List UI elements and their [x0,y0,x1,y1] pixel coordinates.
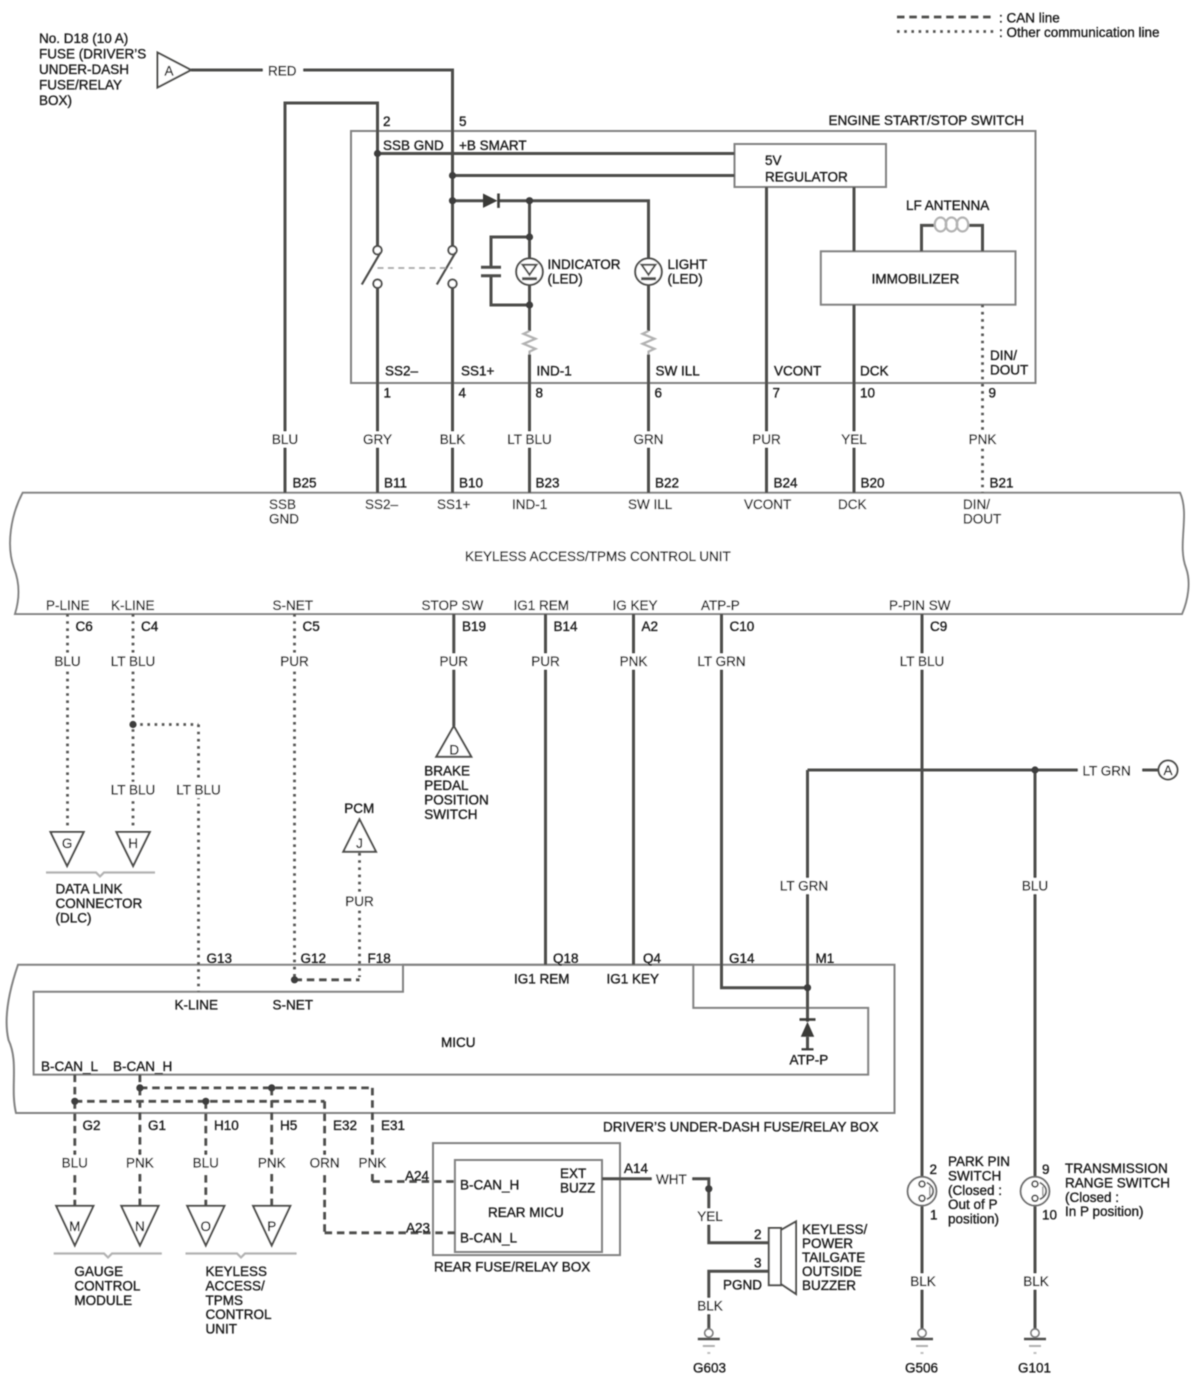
svg-text:LT BLU: LT BLU [507,432,552,447]
svg-text:G1: G1 [148,1118,166,1133]
svg-text:LT BLU: LT BLU [111,783,156,798]
svg-text:10: 10 [860,386,875,401]
svg-text:MODULE: MODULE [74,1293,132,1308]
svg-text:5V: 5V [765,153,782,168]
svg-text:K-LINE: K-LINE [111,598,155,613]
svg-text:(LED): (LED) [668,272,703,287]
svg-text:KEYLESS ACCESS/TPMS CONTROL UN: KEYLESS ACCESS/TPMS CONTROL UNIT [465,549,731,564]
svg-text:S-NET: S-NET [273,998,314,1013]
svg-text:Out of P: Out of P [948,1197,998,1212]
svg-text:Q18: Q18 [553,951,579,966]
svg-text:6: 6 [655,386,663,401]
svg-text:VCONT: VCONT [744,497,791,512]
svg-text:BLU: BLU [62,1156,88,1171]
svg-text:REGULATOR: REGULATOR [765,170,848,185]
svg-text:(DLC): (DLC) [56,911,92,926]
svg-text:SSB: SSB [269,497,296,512]
svg-text:IG1 REM: IG1 REM [514,598,570,613]
svg-text:A: A [164,64,173,79]
svg-text:GND: GND [269,512,299,527]
svg-text:LT BLU: LT BLU [111,654,156,669]
svg-text:LT GRN: LT GRN [1083,764,1131,779]
svg-text:BLU: BLU [193,1156,219,1171]
svg-text:SW ILL: SW ILL [628,497,673,512]
svg-text:C4: C4 [141,619,159,634]
svg-text:PEDAL: PEDAL [424,778,469,793]
svg-text:PCM: PCM [344,801,374,816]
svg-text:BUZZ: BUZZ [560,1181,595,1196]
svg-text:+B SMART: +B SMART [459,138,527,153]
svg-text:H: H [128,836,138,851]
svg-text:SS1+: SS1+ [461,364,495,379]
svg-text:SWITCH: SWITCH [424,807,477,822]
svg-text:8: 8 [536,386,544,401]
svg-text:O: O [201,1219,212,1234]
svg-text:7: 7 [773,386,781,401]
svg-text:B11: B11 [384,476,407,491]
svg-text:(Closed :: (Closed : [1065,1190,1119,1205]
svg-text:PNK: PNK [126,1156,154,1171]
svg-text:S-NET: S-NET [273,598,314,613]
svg-text:P-LINE: P-LINE [46,598,90,613]
svg-text:PUR: PUR [531,654,560,669]
svg-text:IG1 KEY: IG1 KEY [607,972,660,987]
svg-text:REAR FUSE/RELAY BOX: REAR FUSE/RELAY BOX [434,1260,590,1275]
svg-text:TPMS: TPMS [206,1293,244,1308]
svg-text:STOP SW: STOP SW [422,598,484,613]
svg-text:(Closed :: (Closed : [948,1183,1002,1198]
svg-text:POWER: POWER [802,1236,853,1251]
svg-text:PNK: PNK [359,1156,387,1171]
svg-text:IG1 REM: IG1 REM [514,972,570,987]
svg-text:REAR MICU: REAR MICU [488,1205,564,1220]
svg-text:B25: B25 [293,476,317,491]
svg-text:C5: C5 [303,619,320,634]
svg-text:PUR: PUR [752,432,781,447]
svg-text:E31: E31 [381,1118,405,1133]
svg-text:SSB GND: SSB GND [383,138,444,153]
svg-text:C6: C6 [76,619,93,634]
svg-text:BLK: BLK [697,1299,723,1314]
svg-text:G14: G14 [729,951,755,966]
svg-text:CONTROL: CONTROL [206,1307,272,1322]
svg-text:BRAKE: BRAKE [424,764,470,779]
svg-text:No. D18 (10 A): No. D18 (10 A) [39,31,128,46]
svg-text:9: 9 [989,386,997,401]
svg-text:G101: G101 [1018,1361,1051,1376]
svg-text:In P position): In P position) [1065,1204,1144,1219]
svg-text:SS2–: SS2– [365,497,399,512]
svg-text:B-CAN_L: B-CAN_L [460,1231,518,1246]
svg-text:G12: G12 [301,951,327,966]
svg-text:2: 2 [383,114,391,129]
svg-text:LT BLU: LT BLU [176,783,221,798]
svg-text:J: J [356,836,363,851]
svg-text:DIN/: DIN/ [990,348,1017,363]
svg-text:GRN: GRN [634,432,664,447]
svg-text:TAILGATE: TAILGATE [802,1250,865,1265]
svg-text:CONTROL: CONTROL [74,1278,140,1293]
svg-text:MICU: MICU [441,1035,476,1050]
svg-text:N: N [135,1219,145,1234]
svg-text:IMMOBILIZER: IMMOBILIZER [872,272,960,287]
svg-text:PNK: PNK [620,654,648,669]
svg-text:GAUGE: GAUGE [74,1264,123,1279]
svg-text:B14: B14 [554,619,579,634]
svg-text:10: 10 [1042,1208,1057,1223]
svg-text:DRIVER’S UNDER-DASH FUSE/RELAY: DRIVER’S UNDER-DASH FUSE/RELAY BOX [603,1120,879,1135]
svg-text:3: 3 [754,1256,762,1271]
svg-text:LT GRN: LT GRN [697,654,745,669]
svg-text:K-LINE: K-LINE [175,998,219,1013]
svg-text:KEYLESS: KEYLESS [206,1264,268,1279]
svg-text:position): position) [948,1212,999,1227]
svg-text:POSITION: POSITION [424,793,489,808]
svg-text:A24: A24 [405,1169,430,1184]
svg-text:BLK: BLK [1023,1274,1049,1289]
svg-text:B23: B23 [536,476,560,491]
svg-text:B24: B24 [774,476,799,491]
svg-text:PGND: PGND [723,1278,762,1293]
svg-text:1: 1 [384,386,392,401]
svg-text:C10: C10 [730,619,755,634]
svg-text:SS2–: SS2– [385,364,419,379]
svg-text:P: P [267,1219,276,1234]
svg-text:RANGE SWITCH: RANGE SWITCH [1065,1175,1170,1190]
svg-text:2: 2 [930,1162,938,1177]
svg-text:DOUT: DOUT [990,363,1028,378]
svg-text:E32: E32 [333,1118,357,1133]
svg-text:BLU: BLU [1022,879,1048,894]
svg-text:BLK: BLK [440,432,466,447]
svg-text:PUR: PUR [440,654,469,669]
svg-text:IG KEY: IG KEY [613,598,658,613]
svg-text:9: 9 [1042,1162,1050,1177]
svg-text:VCONT: VCONT [774,364,821,379]
svg-text:UNDER-DASH: UNDER-DASH [39,62,129,77]
svg-text:M: M [69,1219,80,1234]
svg-text:CONNECTOR: CONNECTOR [56,896,143,911]
svg-text:INDICATOR: INDICATOR [548,257,621,272]
svg-text:DATA LINK: DATA LINK [56,882,123,897]
svg-text:YEL: YEL [697,1209,723,1224]
svg-text:4: 4 [459,386,467,401]
svg-text:G603: G603 [693,1361,726,1376]
svg-text:P-PIN SW: P-PIN SW [889,598,951,613]
svg-text:G: G [62,836,73,851]
svg-text:1: 1 [930,1208,938,1223]
svg-text:PUR: PUR [280,654,309,669]
svg-text:B10: B10 [459,476,483,491]
svg-text:BLK: BLK [910,1274,936,1289]
svg-text:B-CAN_H: B-CAN_H [113,1059,172,1074]
svg-text:OUTSIDE: OUTSIDE [802,1264,862,1279]
svg-text:B20: B20 [861,476,885,491]
svg-text:LT GRN: LT GRN [780,879,828,894]
svg-text:B22: B22 [655,476,679,491]
svg-text:A2: A2 [642,619,659,634]
svg-text:A: A [1163,763,1172,778]
svg-text:IND-1: IND-1 [537,364,572,379]
svg-text:LIGHT: LIGHT [668,257,708,272]
svg-text:DCK: DCK [860,364,889,379]
svg-text:YEL: YEL [841,432,867,447]
svg-text:Q4: Q4 [643,951,662,966]
svg-text:2: 2 [754,1227,762,1242]
svg-text:FUSE (DRIVER’S: FUSE (DRIVER’S [39,47,146,62]
svg-text:(LED): (LED) [548,272,583,287]
svg-text:DCK: DCK [838,497,867,512]
svg-text:D: D [449,743,459,758]
svg-text:B-CAN_H: B-CAN_H [460,1178,519,1193]
svg-text:PNK: PNK [258,1156,286,1171]
svg-text:IND-1: IND-1 [512,497,547,512]
svg-text:A23: A23 [406,1221,430,1236]
svg-text:: CAN line: : CAN line [999,11,1060,26]
svg-text:G13: G13 [207,951,233,966]
svg-text:DIN/: DIN/ [963,497,990,512]
svg-text:A14: A14 [624,1161,649,1176]
svg-text:ACCESS/: ACCESS/ [206,1278,266,1293]
svg-text:F18: F18 [368,951,391,966]
svg-text:C9: C9 [930,619,947,634]
svg-text:B19: B19 [462,619,486,634]
svg-text:5: 5 [459,114,467,129]
svg-text:BUZZER: BUZZER [802,1278,856,1293]
svg-text:DOUT: DOUT [963,512,1001,527]
svg-text:H5: H5 [280,1118,297,1133]
svg-text:UNIT: UNIT [206,1322,238,1337]
svg-text:B21: B21 [990,476,1014,491]
svg-text:GRY: GRY [363,432,392,447]
svg-text:H10: H10 [214,1118,239,1133]
svg-text:ORN: ORN [310,1156,340,1171]
svg-text:G2: G2 [83,1118,101,1133]
svg-text:SS1+: SS1+ [437,497,471,512]
svg-text:SW ILL: SW ILL [656,364,701,379]
svg-text:BOX): BOX) [39,93,72,108]
svg-text:ATP-P: ATP-P [790,1053,829,1068]
svg-text:WHT: WHT [656,1172,687,1187]
svg-text:ENGINE START/STOP SWITCH: ENGINE START/STOP SWITCH [828,113,1024,128]
svg-text:RED: RED [268,64,297,79]
svg-text:LF ANTENNA: LF ANTENNA [906,198,989,213]
svg-text:BLU: BLU [272,432,298,447]
svg-text:EXT: EXT [560,1166,586,1181]
svg-text:PNK: PNK [969,432,997,447]
svg-text:PARK PIN: PARK PIN [948,1154,1010,1169]
svg-text:TRANSMISSION: TRANSMISSION [1065,1161,1168,1176]
svg-text:BLU: BLU [54,654,80,669]
svg-text:PUR: PUR [345,894,374,909]
svg-text:M1: M1 [816,951,835,966]
svg-text:SWITCH: SWITCH [948,1168,1001,1183]
svg-text:KEYLESS/: KEYLESS/ [802,1222,868,1237]
svg-text:: Other communication line: : Other communication line [999,25,1160,40]
svg-text:G506: G506 [905,1361,938,1376]
svg-text:B-CAN_L: B-CAN_L [41,1059,99,1074]
svg-text:LT BLU: LT BLU [900,654,945,669]
svg-text:FUSE/RELAY: FUSE/RELAY [39,78,122,93]
svg-text:ATP-P: ATP-P [701,598,740,613]
